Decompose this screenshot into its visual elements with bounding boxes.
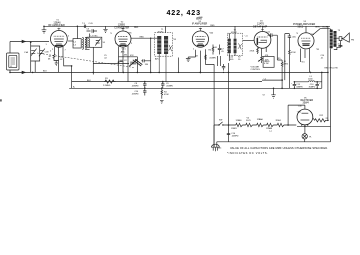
wire V2 pins — [119, 46, 129, 82]
resistor R8 V3 screen — [205, 55, 214, 65]
capacitor C1B tuning — [39, 49, 49, 57]
wire rectifier top feed — [288, 105, 305, 125]
svg-text:180: 180 — [145, 64, 149, 66]
wire V1 pins — [55, 47, 64, 73]
capacitor C15 electrolytic — [291, 82, 303, 89]
svg-text:*85: *85 — [316, 49, 320, 51]
tube V6 rectifier — [297, 97, 313, 125]
svg-text:*0: *0 — [110, 33, 113, 35]
tube V4 det AF amp — [253, 21, 271, 49]
svg-text:(-): (-) — [270, 130, 272, 132]
resistor R9 grid — [277, 58, 288, 68]
capacitor C8 — [132, 82, 147, 89]
resistor R8 box — [263, 55, 274, 67]
svg-text:.01: .01 — [321, 58, 325, 60]
misc voltage and pin labels — [46, 33, 326, 150]
capacitor C4 osc trimmer — [96, 41, 100, 43]
svg-text:PM: PM — [351, 39, 354, 41]
wire V2 plate to IF1 — [131, 37, 157, 74]
svg-text:BLUE: BLUE — [323, 27, 329, 29]
svg-text:50C5: 50C5 — [246, 120, 252, 122]
svg-text:2.2MEG: 2.2MEG — [103, 85, 111, 87]
svg-text:4.7M: 4.7M — [264, 63, 269, 65]
svg-text:V4: V4 — [247, 117, 250, 119]
svg-text:RED: RED — [210, 25, 215, 27]
ground V3 cathode — [186, 55, 199, 61]
resistor R12 — [313, 115, 329, 122]
svg-text:B-: B- — [73, 86, 75, 88]
wire V3 pins — [196, 49, 206, 72]
pilot lamp PL — [302, 134, 313, 142]
resistor R10 — [289, 40, 297, 88]
resistor R3 — [103, 78, 116, 87]
capacitor C9 — [161, 82, 174, 89]
svg-text:470K: 470K — [250, 51, 255, 53]
svg-text:470K: 470K — [291, 52, 296, 54]
svg-text:.05MFD: .05MFD — [231, 136, 239, 138]
svg-text:CONTROL: CONTROL — [251, 69, 262, 71]
svg-text:455KC: 455KC — [158, 31, 165, 33]
wire C7 drop — [178, 58, 180, 73]
wire AF riser — [281, 68, 283, 88]
svg-text:GRN: GRN — [315, 27, 320, 29]
svg-text:*-.6: *-.6 — [245, 36, 249, 38]
svg-text:35W4: 35W4 — [303, 102, 310, 105]
svg-text:5: 5 — [68, 36, 70, 38]
wire antenna top lead — [10, 41, 49, 43]
svg-text:*98: *98 — [173, 39, 177, 41]
svg-text:5: 5 — [131, 43, 133, 45]
svg-text:MEG: MEG — [284, 64, 289, 66]
svg-text:2: 2 — [52, 49, 54, 51]
wire gang dashed line — [37, 53, 134, 68]
resistor R1 cathode — [48, 51, 63, 62]
wire B- bus right end — [321, 72, 323, 88]
tube V5 power amplifier — [293, 21, 315, 49]
wire right vertical main — [327, 26, 329, 119]
svg-text:DET-AF AMP: DET-AF AMP — [253, 25, 268, 28]
ground near C3 — [103, 26, 107, 32]
svg-text:12BA6: 12BA6 — [257, 118, 264, 121]
svg-text:L3: L3 — [74, 45, 77, 47]
speaker SP1 — [334, 33, 355, 50]
svg-text:5: 5 — [266, 42, 268, 44]
resistor R5 — [209, 45, 218, 55]
svg-text:2: 2 — [193, 49, 195, 51]
svg-text:7: 7 — [207, 44, 209, 46]
svg-text:C11: C11 — [267, 32, 271, 34]
svg-text:+: + — [319, 83, 321, 85]
svg-text:68: 68 — [48, 58, 51, 60]
wire osc feedback — [93, 63, 118, 65]
wire V4 pins — [258, 47, 266, 55]
svg-text:L2: L2 — [74, 42, 77, 44]
capacitor C2 padder — [119, 49, 143, 73]
svg-text:*-1.5: *-1.5 — [122, 49, 127, 51]
svg-text:12AT6: 12AT6 — [231, 127, 238, 130]
wire IF2 to V4 grid — [243, 40, 255, 42]
svg-text:0: 0 — [50, 51, 52, 53]
resistor R4 — [160, 88, 169, 103]
svg-text:*90: *90 — [311, 34, 315, 36]
node arrow on antenna lead — [22, 40, 27, 43]
svg-text:RF AMPLIFIER: RF AMPLIFIER — [48, 24, 65, 27]
potentiometer R6 volume control — [251, 55, 270, 71]
svg-text:1: 1 — [46, 44, 48, 46]
svg-text:68: 68 — [196, 55, 199, 57]
transformer IF1 — [155, 26, 173, 81]
svg-text:470K: 470K — [164, 94, 169, 96]
svg-text:RED YELLOW: RED YELLOW — [325, 68, 338, 70]
svg-text:BLK: BLK — [43, 71, 47, 73]
svg-text:IF AMPLIFIER: IF AMPLIFIER — [192, 23, 208, 26]
capacitor C13 grid coupling — [285, 34, 297, 81]
capacitor C5 screen bypass — [77, 23, 94, 28]
svg-text:485: 485 — [124, 55, 128, 57]
resistor R13 filament — [231, 120, 242, 130]
svg-text:*140: *140 — [298, 106, 303, 108]
wire V5 pins — [301, 48, 310, 72]
AC plug P1 — [212, 125, 220, 151]
resistor R11 filament — [276, 120, 284, 127]
svg-text:R12: R12 — [320, 115, 325, 117]
tube V3 IF amplifier — [192, 17, 208, 47]
wire V5 plate to output transformer — [313, 29, 330, 35]
transformer T1 RF coil — [68, 26, 89, 49]
svg-text:BLK: BLK — [87, 80, 91, 82]
wire filament string — [214, 124, 296, 126]
svg-text:1: 1 — [254, 42, 256, 44]
wire choke B plus line — [294, 81, 321, 83]
svg-text:.05MFD: .05MFD — [132, 94, 140, 96]
svg-text:R3: R3 — [105, 78, 108, 80]
svg-text:L4 OSC: L4 OSC — [91, 35, 99, 37]
wire AC vertical — [228, 63, 230, 142]
transformer IF2 — [227, 26, 242, 61]
svg-text:AVC: AVC — [121, 51, 126, 54]
capacitor C6 — [141, 59, 150, 66]
capacitor C11 coupling — [267, 32, 278, 37]
svg-text:C1A: C1A — [24, 51, 29, 54]
svg-text:35W4: 35W4 — [276, 120, 282, 122]
svg-text:7.3: 7.3 — [82, 23, 86, 25]
svg-text:*-8: *-8 — [262, 95, 265, 97]
svg-text:C.05: C.05 — [89, 23, 94, 25]
svg-text:SW: SW — [219, 119, 222, 121]
svg-text:455KC: 455KC — [231, 32, 238, 34]
ground on B+ left end — [42, 26, 47, 33]
capacitor C16 electrolytic — [309, 82, 321, 89]
svg-text:*100: *100 — [209, 33, 214, 35]
svg-text:PL: PL — [309, 137, 312, 139]
svg-text:12BE6: 12BE6 — [236, 120, 243, 122]
capacitor C1A tuning — [24, 42, 40, 72]
svg-text:RED: RED — [134, 27, 139, 29]
svg-text:.005: .005 — [292, 36, 297, 38]
wire V1 plate elbow — [64, 58, 72, 88]
wire rectifier bottom loop — [297, 124, 331, 133]
svg-text:*6: *6 — [296, 33, 299, 35]
svg-text:T3: T3 — [338, 30, 341, 32]
capacitor C7 — [218, 45, 225, 55]
svg-text:C3: C3 — [87, 29, 90, 31]
capacitor C10 — [132, 88, 147, 95]
svg-text:C2: C2 — [124, 60, 127, 62]
svg-text:RED: RED — [140, 37, 145, 39]
svg-text:.005: .005 — [230, 59, 235, 61]
svg-text:VALUE OF ALL CAPACITORS ARE MM: VALUE OF ALL CAPACITORS ARE MMF UNLESS O… — [230, 146, 328, 150]
capacitor C18 det — [218, 56, 226, 73]
svg-text:AVC: AVC — [155, 58, 160, 61]
capacitor C17 line — [227, 133, 239, 138]
wire B- bus left — [69, 87, 322, 89]
transformer L4 oscillator coil — [87, 35, 106, 74]
svg-text:12BA6: 12BA6 — [266, 127, 273, 130]
wire AF line — [262, 79, 283, 81]
svg-text:.05MFD: .05MFD — [209, 58, 217, 60]
svg-text:R5: R5 — [209, 49, 212, 51]
svg-text:C1B: C1B — [45, 52, 50, 54]
svg-text:.05: .05 — [221, 51, 225, 53]
svg-text:*4.5: *4.5 — [301, 62, 305, 64]
resistor R7 diode load — [250, 48, 259, 54]
svg-text:POWER AMPLIFIER: POWER AMPLIFIER — [293, 23, 315, 26]
tube V2 converter — [114, 22, 131, 47]
loop antenna L1 — [7, 42, 20, 73]
svg-text:68: 68 — [215, 47, 218, 49]
svg-text:.02: .02 — [104, 58, 108, 60]
ground near rectifier — [271, 88, 275, 98]
svg-text:50C5: 50C5 — [298, 26, 304, 29]
svg-text:7: 7 — [65, 50, 67, 52]
wire B+ top bus — [44, 25, 330, 27]
svg-text:*120: *120 — [297, 112, 302, 114]
wire AC return vertical — [213, 64, 215, 147]
wire power loop bottom — [217, 141, 331, 143]
svg-text:56: 56 — [103, 42, 106, 44]
svg-text:422, 423: 422, 423 — [167, 8, 201, 17]
svg-text:30MFD: 30MFD — [309, 87, 316, 89]
resistor R14 filament — [246, 117, 274, 132]
svg-text:40MFD: 40MFD — [296, 87, 303, 89]
svg-text:.02: .02 — [60, 59, 64, 61]
capacitor C3 — [87, 29, 98, 33]
tube V1 RF amplifier — [48, 19, 67, 47]
svg-text:*95: *95 — [129, 33, 133, 35]
transformer T3 output — [330, 29, 341, 142]
svg-text:.05MFD: .05MFD — [166, 86, 174, 88]
ground at V1 cathode — [55, 61, 58, 66]
svg-text:.05MFD: .05MFD — [132, 86, 140, 88]
choke L5 — [308, 76, 315, 82]
wire mid bus left — [72, 81, 262, 83]
svg-text:1000: 1000 — [308, 79, 313, 81]
node arrow on AVC bus — [22, 71, 27, 74]
svg-text:10: 10 — [238, 59, 241, 61]
switch S1 — [218, 119, 223, 125]
wire AVC bus — [10, 71, 328, 73]
svg-text:AC: AC — [219, 147, 222, 150]
svg-text:6BA6: 6BA6 — [196, 17, 203, 20]
scan speck left edge — [0, 99, 2, 101]
svg-text:*INDICATES DC VOLTS.: *INDICATES DC VOLTS. — [227, 151, 268, 155]
wire V4 coupling riser — [276, 35, 278, 60]
